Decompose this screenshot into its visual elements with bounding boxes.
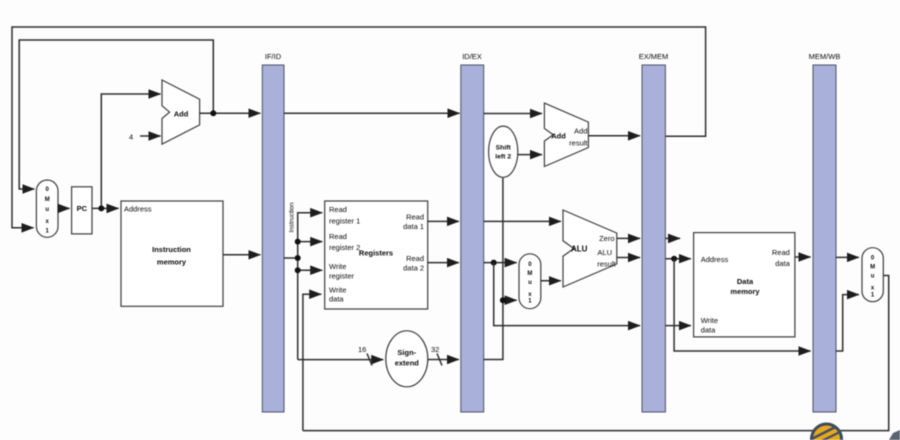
wire PC out to instruction memory Address [92,207,119,209]
wire PC+4 between IF/ID and ID/EX [284,112,460,114]
wire write-back to Write data [303,294,321,430]
wire mux M1 out to PC [58,207,70,209]
junction ALU result [671,256,677,262]
svg-text:Add: Add [574,127,587,136]
svg-text:result: result [597,259,616,268]
svg-text:Read: Read [772,248,790,257]
wire 4 to Add [140,135,161,137]
sign extend unit [386,331,428,387]
wire PC+4 loop (Add out to PC mux input 0) [19,40,213,189]
svg-text:data: data [701,326,716,335]
svg-text:Instruction: Instruction [152,245,191,254]
junction instruction 2 [295,255,301,261]
svg-text:Add: Add [174,110,189,119]
svg-text:4: 4 [129,133,133,142]
svg-text:Address: Address [701,255,729,264]
wire sign value riser [484,178,503,360]
svg-text:u: u [528,280,532,286]
wire mux M2 out to ALU [541,280,561,282]
svg-text:Address: Address [124,205,152,214]
svg-text:u: u [45,207,49,213]
wire branch loop (EX/MEM to PC mux input 1) [12,27,706,228]
svg-text:Instruction: Instruction [289,202,296,232]
pipeline register MEM/WB [813,65,836,412]
svg-text:Add: Add [551,132,566,141]
svg-text:data 1: data 1 [403,222,424,231]
adder Add (branch target) [544,103,588,166]
svg-text:32: 32 [431,345,439,354]
svg-text:memory: memory [730,287,760,296]
svg-text:16: 16 [358,345,366,354]
mux M2 (ALUSrc) [519,254,541,309]
wire ALU zero to EX/MEM [617,237,640,239]
svg-text:ID/EX: ID/EX [462,52,482,61]
svg-text:IF/ID: IF/ID [265,52,282,61]
svg-text:Read: Read [329,232,347,241]
svg-text:Read: Read [329,205,347,214]
shift left 2 unit [489,126,518,177]
wire ALU result bypass to MEM/WB [674,259,810,351]
svg-text:ALU: ALU [571,245,588,254]
junction instruction 1 [295,239,301,245]
data memory [694,233,795,337]
wire branch Add out to EX/MEM [588,135,640,137]
mux M1 (PCSrc) [36,180,58,237]
wire shift out to branch Add [518,154,542,156]
wire Read data 2 to ALU mux [484,262,517,264]
svg-text:left 2: left 2 [495,153,511,160]
svg-text:Zero: Zero [599,234,614,243]
svg-text:M: M [45,197,50,203]
logo gold ball [812,424,842,440]
svg-text:EX/MEM: EX/MEM [639,52,669,61]
svg-text:Registers: Registers [359,249,393,258]
svg-text:ALU: ALU [597,248,612,257]
logo corner wedge [889,430,900,440]
svg-text:Write: Write [701,316,718,325]
junction sign value [500,297,506,303]
wire MEM/WB ALU result to mux M3 bottom [836,295,859,351]
svg-text:Sign-: Sign- [397,348,416,357]
svg-text:register: register [329,272,355,281]
svg-text:extend: extend [395,359,420,368]
register PC [72,187,92,234]
wire to Write register [298,269,323,271]
svg-text:data: data [329,295,344,304]
svg-text:data 2: data 2 [403,263,424,272]
bus tick 16 [367,354,372,366]
svg-text:register 1: register 1 [329,217,360,226]
instruction memory [121,201,223,306]
wire Add out to IF/ID [200,112,261,114]
wire ALU result to EX/MEM [617,257,640,259]
svg-text:PC: PC [77,204,88,213]
svg-text:M: M [527,271,532,277]
bus tick 32 [437,354,442,366]
wire store data to EX/MEM [494,263,640,326]
svg-text:Write: Write [329,262,346,271]
wire zero out of EX/MEM [665,237,680,239]
svg-text:u: u [871,274,875,280]
svg-text:Write: Write [329,285,346,294]
svg-text:Read: Read [406,213,424,222]
svg-text:M: M [870,265,875,271]
svg-text:Data: Data [737,277,754,286]
wire Read data 1 to ID/EX [428,220,459,222]
wire write-back loop [303,276,889,431]
wire sign value to ALU mux [503,299,517,301]
wire store data to data memory Write data [665,325,690,327]
mux M3 (MemtoReg) [862,248,883,302]
pipeline register ID/EX [461,65,484,412]
wire ALU result to data memory Address [665,258,690,260]
junction PC out [98,205,104,211]
wire Read data to MEM/WB [795,256,811,258]
wire to sign extend [298,359,384,361]
svg-text:result: result [569,138,588,147]
pipeline register EX/MEM [642,65,665,412]
wire to Read register 2 [298,241,323,243]
svg-text:register 2: register 2 [329,243,360,252]
registers block [325,201,428,309]
wire PC up to Add [101,94,160,208]
wire sign extend out to ID/EX [428,359,459,361]
wire instruction memory out to IF/ID [223,254,260,256]
wire instruction bus from IF/ID [284,213,322,258]
wire MEM/WB to mux M3 top [836,256,859,258]
svg-text:Shift: Shift [496,144,512,151]
adder Add (PC+4) [162,80,200,144]
junction Read data 2 [491,260,497,266]
svg-text:memory: memory [157,258,187,267]
junction Add out [210,110,216,116]
wire Read data 2 to ID/EX [428,262,459,264]
svg-text:MEM/WB: MEM/WB [809,52,841,61]
svg-text:Read: Read [406,254,424,263]
ALU [563,210,617,287]
svg-text:data: data [775,259,790,268]
junction instruction 3 [295,267,301,273]
wire Read data 1 to ALU [484,220,561,222]
wire PC+4 to branch Add [484,113,542,115]
wire instruction vertical [297,258,299,360]
pipeline register IF/ID [262,65,284,412]
